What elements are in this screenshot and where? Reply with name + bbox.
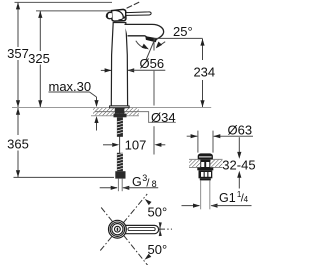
svg-text:3: 3 bbox=[142, 173, 147, 183]
svg-text:234: 234 bbox=[193, 64, 215, 79]
svg-text:325: 325 bbox=[28, 51, 50, 66]
svg-text:max.30: max.30 bbox=[49, 79, 92, 94]
svg-text:Ø34: Ø34 bbox=[151, 110, 176, 125]
svg-text:32-45: 32-45 bbox=[222, 157, 255, 172]
svg-text:G1: G1 bbox=[219, 191, 236, 205]
svg-text:4: 4 bbox=[244, 195, 249, 204]
svg-text:107: 107 bbox=[125, 137, 147, 152]
svg-text:365: 365 bbox=[7, 136, 29, 151]
svg-text:50°: 50° bbox=[148, 242, 168, 257]
svg-text:G: G bbox=[132, 175, 142, 189]
svg-text:1: 1 bbox=[237, 190, 242, 199]
svg-text:357: 357 bbox=[7, 46, 29, 61]
svg-text:Ø56: Ø56 bbox=[140, 56, 165, 71]
svg-text:25°: 25° bbox=[173, 24, 193, 39]
svg-text:Ø63: Ø63 bbox=[228, 123, 253, 138]
svg-text:8: 8 bbox=[152, 179, 157, 189]
svg-text:50°: 50° bbox=[148, 205, 168, 220]
